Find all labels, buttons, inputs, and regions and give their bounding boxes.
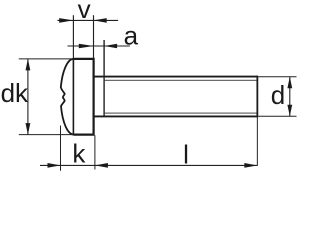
v right arrow <box>94 18 107 23</box>
k and l dimension line <box>40 164 257 166</box>
dk extension line top <box>19 58 73 60</box>
k right / l left arrow <box>95 163 108 168</box>
svg-text:a: a <box>124 20 139 50</box>
svg-text:dk: dk <box>1 78 29 108</box>
svg-text:l: l <box>183 139 189 169</box>
d dimension line <box>289 77 291 117</box>
v extension line left <box>72 15 74 59</box>
d extension line top <box>258 76 296 78</box>
k left arrow <box>48 163 61 168</box>
dk top arrow <box>26 59 31 71</box>
v dimension line <box>57 19 118 21</box>
a left arrow <box>79 44 94 49</box>
dk extension line bottom <box>19 134 73 136</box>
l extension line left <box>94 135 96 169</box>
screw head outline (top edge, bearing face, bottom edge) <box>73 59 93 135</box>
a right arrow <box>104 44 117 49</box>
k extension line left <box>60 126 62 171</box>
svg-text:d: d <box>271 80 285 110</box>
thread line bottom <box>105 112 257 114</box>
dk bottom arrow <box>26 123 31 135</box>
d top arrow <box>287 77 292 89</box>
shaft bottom edge <box>94 115 258 117</box>
l extension line right <box>256 117 258 165</box>
v left arrow <box>59 18 73 23</box>
dk dimension line <box>27 59 29 135</box>
v extension line right <box>93 15 95 59</box>
head dome with recess notch <box>61 59 74 135</box>
thread line top <box>105 79 257 81</box>
l right arrow <box>244 163 257 168</box>
d extension line bottom <box>258 115 296 117</box>
shaft top edge <box>94 76 258 78</box>
a dimension line <box>68 45 130 47</box>
head dome/cylinder junction line <box>72 59 74 135</box>
svg-text:v: v <box>78 0 91 24</box>
svg-text:k: k <box>72 138 86 168</box>
d bottom arrow <box>287 105 292 117</box>
thread start line / a extension <box>103 40 105 116</box>
shaft end line <box>256 76 258 118</box>
